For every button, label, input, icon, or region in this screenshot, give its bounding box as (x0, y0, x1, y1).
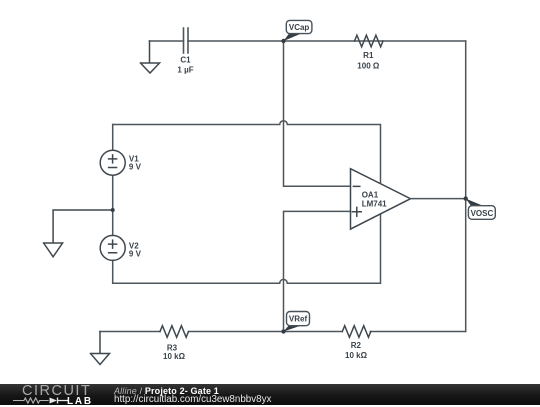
svg-text:9 V: 9 V (129, 250, 142, 259)
svg-text:1 µF: 1 µF (177, 66, 193, 75)
svg-text:C1: C1 (180, 56, 191, 65)
svg-text:R1: R1 (363, 51, 374, 60)
svg-text:10 kΩ: 10 kΩ (345, 351, 368, 360)
svg-text:R2: R2 (351, 341, 362, 350)
svg-text:VOSC: VOSC (471, 209, 494, 218)
svg-text:VCap: VCap (289, 23, 310, 32)
svg-text:9 V: 9 V (129, 163, 142, 172)
svg-text:10 kΩ: 10 kΩ (163, 352, 186, 361)
svg-text:LM741: LM741 (362, 199, 387, 208)
svg-text:VRef: VRef (289, 315, 308, 324)
svg-text:100 Ω: 100 Ω (357, 61, 380, 70)
svg-text:OA1: OA1 (362, 191, 379, 200)
svg-text:R3: R3 (167, 343, 178, 352)
